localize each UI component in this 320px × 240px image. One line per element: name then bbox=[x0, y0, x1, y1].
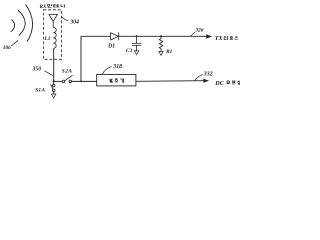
label 332 bbox=[195, 72, 213, 81]
hangul AN bbox=[47, 4, 52, 7]
switch S1A bbox=[35, 81, 55, 93]
ground arrow below R1 bbox=[159, 51, 163, 55]
TX signal arrowhead bbox=[206, 34, 212, 38]
svg-text:318: 318 bbox=[112, 64, 122, 70]
svg-text:106: 106 bbox=[3, 45, 11, 51]
hangul faint trailing char bbox=[235, 36, 238, 39]
svg-text:RX: RX bbox=[40, 4, 47, 10]
switch S2A bbox=[54, 69, 73, 83]
wire: top TX line left segment bbox=[81, 35, 111, 37]
svg-text:326: 326 bbox=[194, 28, 204, 34]
antenna symbol bbox=[49, 15, 57, 28]
node R1 tap bbox=[160, 35, 162, 37]
RX antenna label bbox=[40, 4, 66, 10]
hangul O bbox=[226, 81, 230, 84]
svg-text:D1: D1 bbox=[107, 44, 115, 50]
demodulator box 318 bbox=[97, 74, 136, 86]
resistor R1 bbox=[159, 36, 163, 51]
wire: S2A to demodulator bbox=[72, 80, 97, 82]
hangul NA bbox=[61, 4, 65, 7]
DC output wire bbox=[136, 80, 204, 83]
inductor L1 bbox=[54, 27, 57, 48]
svg-text:L1: L1 bbox=[44, 36, 51, 42]
svg-text:S2A: S2A bbox=[62, 69, 73, 75]
radiated waves bbox=[11, 4, 33, 42]
label 350 bbox=[32, 66, 53, 75]
hangul SET (clipped at edge) bbox=[238, 81, 240, 85]
svg-text:304: 304 bbox=[69, 20, 79, 26]
node T junction bbox=[80, 81, 82, 83]
hangul TE bbox=[54, 4, 58, 7]
wire: coil to junction node bbox=[53, 48, 55, 81]
label 318 bbox=[102, 64, 122, 75]
leader 304 bbox=[62, 17, 79, 26]
node C3 tap bbox=[136, 35, 138, 37]
label 326 bbox=[190, 28, 203, 37]
svg-text:C3: C3 bbox=[126, 48, 132, 54]
svg-text:DC: DC bbox=[214, 81, 224, 87]
DC offset label bbox=[214, 81, 239, 87]
TX signal label bbox=[215, 36, 238, 42]
wire: top TX line mid segment bbox=[119, 35, 207, 37]
dashed box 304 (RX antenna block) bbox=[43, 10, 61, 60]
capacitor C3 bbox=[132, 36, 141, 51]
DC output arrowhead bbox=[203, 79, 209, 83]
label 106 bbox=[3, 40, 18, 51]
svg-text:S1A: S1A bbox=[35, 88, 45, 94]
demodulator text (hangul BOK JO GI) bbox=[110, 79, 124, 84]
svg-text:332: 332 bbox=[203, 72, 213, 78]
hangul SIN bbox=[224, 36, 228, 40]
svg-text:TX: TX bbox=[215, 36, 224, 42]
wire: riser to TX path bbox=[80, 36, 82, 81]
hangul HO bbox=[230, 36, 233, 39]
svg-text:R1: R1 bbox=[165, 49, 173, 55]
ground arrow below S1A bbox=[52, 92, 56, 98]
svg-text:350: 350 bbox=[32, 66, 42, 72]
hangul PEU bbox=[232, 81, 236, 84]
node junction 350 bbox=[53, 80, 55, 82]
diode D1 bbox=[111, 32, 119, 40]
ground arrow below C3 bbox=[134, 51, 138, 55]
